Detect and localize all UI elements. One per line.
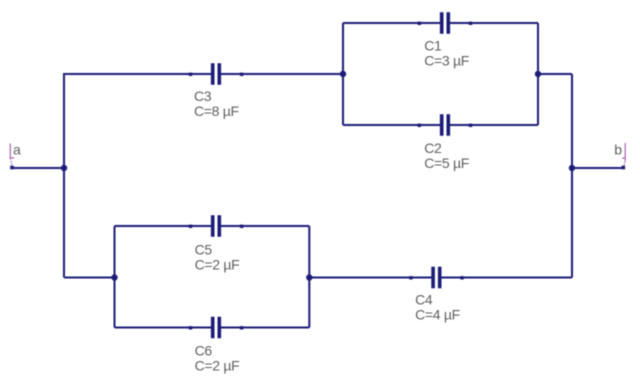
svg-text:C=5 µF: C=5 µF	[424, 155, 469, 171]
svg-text:C2: C2	[424, 140, 442, 156]
svg-text:C=8 µF: C=8 µF	[194, 103, 239, 119]
svg-text:C=2 µF: C=2 µF	[195, 357, 240, 373]
svg-text:b: b	[614, 142, 622, 158]
svg-text:C5: C5	[195, 242, 213, 258]
svg-text:C3: C3	[194, 88, 212, 104]
svg-text:C=4 µF: C=4 µF	[415, 306, 460, 322]
svg-text:C1: C1	[424, 38, 442, 54]
svg-text:C=2 µF: C=2 µF	[195, 257, 240, 273]
svg-text:a: a	[13, 142, 21, 158]
svg-text:C6: C6	[195, 342, 213, 358]
svg-text:C=3 µF: C=3 µF	[424, 53, 469, 69]
svg-text:C4: C4	[415, 291, 433, 307]
